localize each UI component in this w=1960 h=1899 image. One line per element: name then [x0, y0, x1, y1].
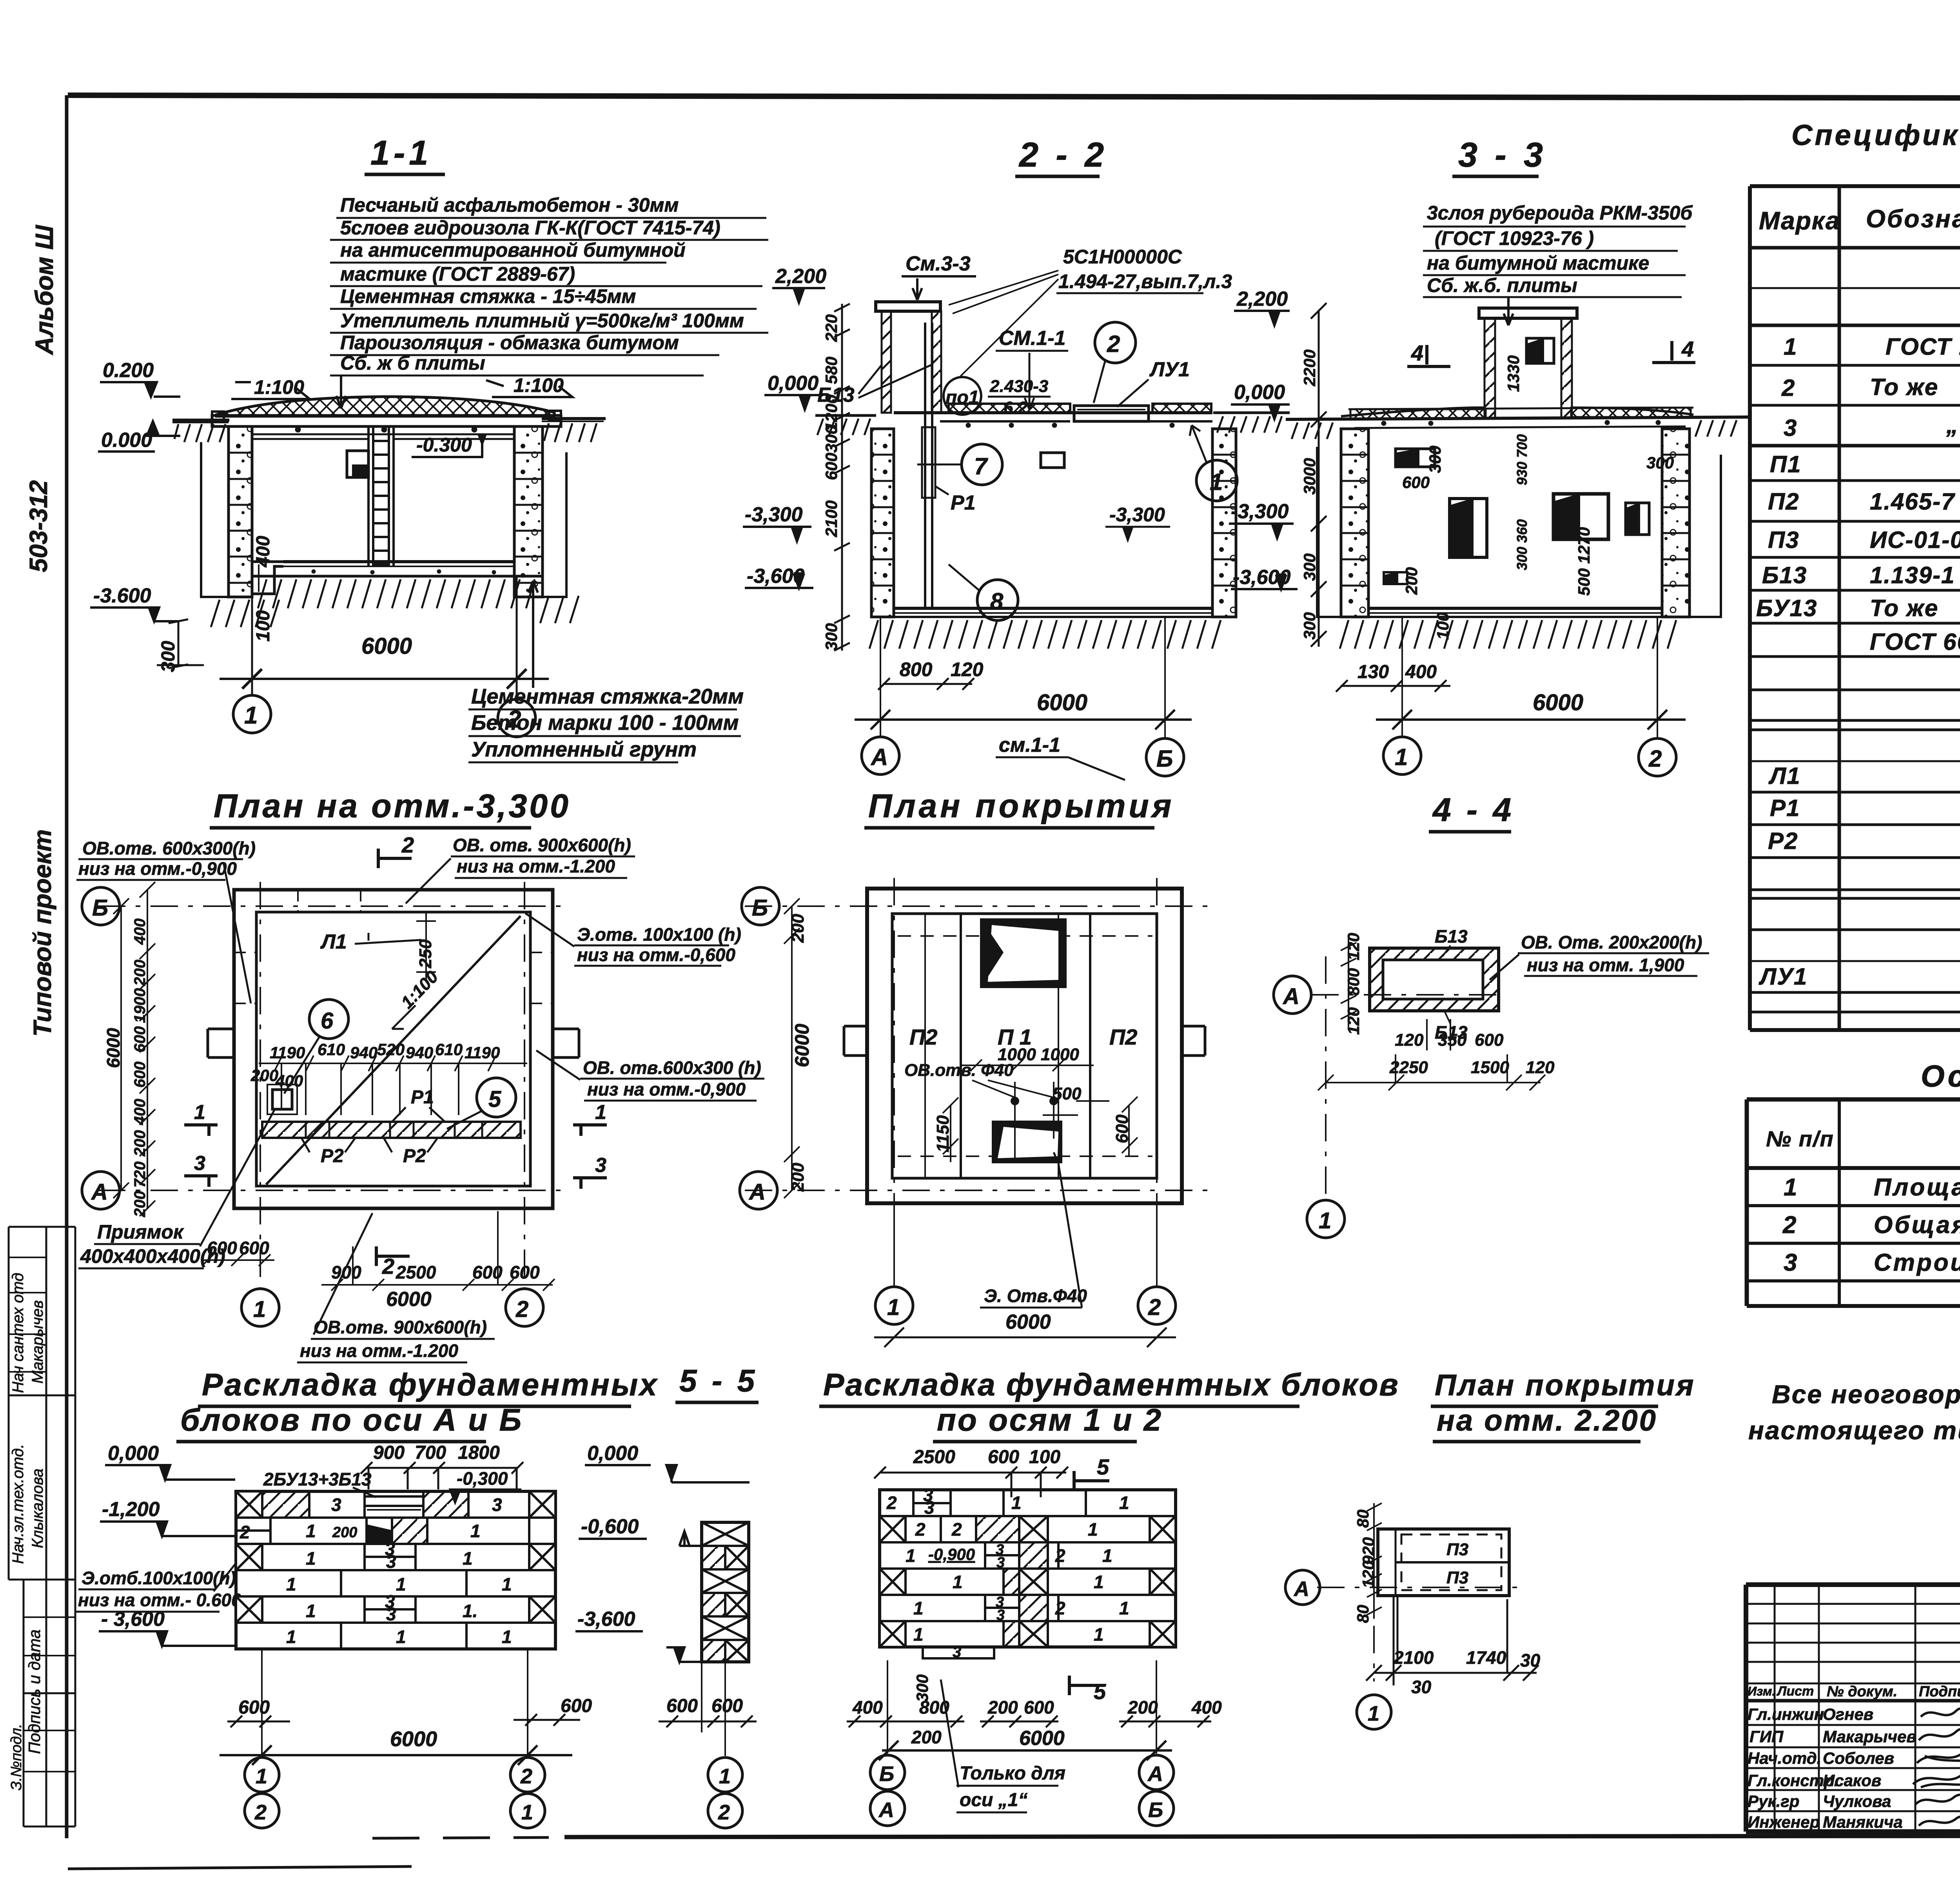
roof plan axis lines [745, 878, 1211, 1290]
svg-text:400: 400 [1405, 662, 1437, 682]
section 4-4 axis lines [1311, 956, 1505, 1199]
svg-text:1500: 1500 [1471, 1058, 1509, 1077]
section 2-2 mark -3,300 interior [1105, 504, 1170, 540]
foundation layout A-B elevation 0,000 [105, 1442, 235, 1480]
svg-text:Обозначение: Обозначение [1866, 205, 1960, 233]
svg-text:-3,300: -3,300 [1231, 500, 1289, 523]
section 2-2 chamber roof slab [894, 404, 1212, 428]
svg-text:100: 100 [253, 610, 274, 642]
svg-text:-1,200: -1,200 [102, 1498, 160, 1521]
svg-text:- 3,600: - 3,600 [101, 1608, 165, 1631]
section 1-1 interior ceiling line [252, 434, 514, 439]
svg-text:ОВ.отв. Ф40: ОВ.отв. Ф40 [904, 1061, 1014, 1080]
section 3-3 roof layers note [1427, 202, 1693, 296]
section 4-4 bottom dims [1389, 1030, 1555, 1077]
svg-text:200: 200 [1127, 1697, 1158, 1718]
svg-text:520: 520 [377, 1040, 405, 1059]
svg-text:П2: П2 [1109, 1025, 1137, 1049]
svg-text:А: А [1293, 1577, 1309, 1601]
svg-text:1: 1 [595, 1101, 606, 1124]
svg-text:6000: 6000 [103, 1028, 123, 1068]
axis circles B/A pair left (layout 1-2) [870, 1755, 905, 1826]
section 2-2 B13 label [817, 365, 932, 406]
svg-text:5: 5 [1097, 1455, 1109, 1479]
svg-text:1800: 1800 [458, 1442, 500, 1463]
svg-text:400: 400 [275, 1072, 303, 1090]
section 1-1 right wall (concrete blocks) [514, 426, 543, 597]
section 1-1 elevation mark 0.000 [98, 421, 180, 452]
section 5-5 elevation 0,000 [585, 1442, 750, 1482]
svg-text:1: 1 [306, 1601, 316, 1621]
roof plan hatch opening top [982, 920, 1065, 987]
section 3-3 interior dims [1402, 434, 1674, 640]
svg-text:1.139-1 вып.1: 1.139-1 вып.1 [1870, 562, 1960, 588]
svg-text:1190: 1190 [270, 1043, 305, 1062]
svg-text:Б: Б [92, 895, 108, 921]
section 1-1 ladder [368, 426, 394, 566]
specification table header row [1759, 196, 1960, 243]
svg-text:1: 1 [1088, 1519, 1098, 1540]
axis circle 1 (plan -3.300) [241, 1289, 279, 1326]
axis circle 2 (section 3-3) [1639, 738, 1676, 776]
svg-text:2: 2 [718, 1801, 730, 1824]
svg-text:Л1: Л1 [1768, 763, 1801, 789]
axis circle 1 (roof plan) [875, 1287, 913, 1324]
svg-text:1: 1 [1319, 1208, 1331, 1233]
svg-text:1: 1 [1368, 1702, 1379, 1725]
svg-text:1: 1 [1210, 469, 1223, 495]
svg-text:0,000: 0,000 [108, 1442, 159, 1465]
svg-text:1: 1 [1102, 1545, 1112, 1566]
svg-text:3слоя рубероида РКМ-350б: 3слоя рубероида РКМ-350б [1427, 202, 1693, 224]
svg-text:130: 130 [1357, 662, 1389, 682]
axis circle 1 (section 3-3) [1383, 737, 1421, 774]
axis circle A (section 4-4) [1274, 976, 1311, 1014]
plan -3.300 right note E otv 100x100 [525, 913, 741, 966]
svg-text:2,200: 2,200 [1236, 288, 1288, 310]
section 2-2 chamber walls [871, 429, 1236, 617]
svg-text:300: 300 [913, 1674, 931, 1702]
svg-text:Цементная стяжка-20мм: Цементная стяжка-20мм [471, 685, 744, 708]
svg-text:низ на отм.-0,900: низ на отм.-0,900 [587, 1079, 746, 1099]
section 1-1 elevation mark 0.200 [100, 359, 180, 397]
section 2-2 ground surface sides [815, 413, 1290, 435]
svg-text:Пароизоляция - обмазка битумо: Пароизоляция - обмазка битумом [340, 332, 679, 354]
plan -3.300 top-right note OV 900x600 [406, 835, 635, 903]
svg-text:30: 30 [1411, 1677, 1432, 1697]
section 4-4 note OV 200x200 [1490, 932, 1709, 980]
section 1-1 dim 100 (rotated) [253, 610, 274, 642]
svg-text:Б: Б [879, 1762, 894, 1786]
svg-text:Общая площадь: Общая площадь [1874, 1212, 1960, 1239]
svg-text:1.465-7 вып.3: 1.465-7 вып.3 [1870, 488, 1960, 515]
svg-text:-0.300: -0.300 [416, 434, 472, 456]
section 2-2 CM.1-1 bottom note [996, 734, 1125, 780]
svg-text:П2: П2 [1768, 488, 1800, 515]
section 4-4 left dim chain [1344, 933, 1363, 1035]
section 2-2 detail mark po1 [944, 377, 1051, 417]
svg-text:по осям 1 и 2: по осям 1 и 2 [937, 1402, 1163, 1437]
foundation layout A-B mark -0,300 [450, 1468, 521, 1503]
svg-text:ГОСТ 13579-78: ГОСТ 13579-78 [1886, 334, 1960, 360]
svg-text:120: 120 [951, 658, 984, 680]
svg-text:0.200: 0.200 [103, 359, 154, 382]
svg-text:120: 120 [1344, 1007, 1363, 1035]
plan -3.300 cut marks 1 and 3 right [573, 1101, 607, 1189]
svg-text:(ГОСТ 10923-76 ): (ГОСТ 10923-76 ) [1435, 227, 1594, 249]
svg-text:-3.600: -3.600 [93, 584, 151, 607]
svg-text:ЛУ1: ЛУ1 [1149, 358, 1190, 381]
specification table heading [1791, 119, 1960, 185]
svg-text:Б13: Б13 [1435, 926, 1468, 947]
svg-text:Только для: Только для [960, 1763, 1065, 1784]
svg-text:низ на отм.-1.200: низ на отм.-1.200 [300, 1340, 458, 1361]
svg-text:1: 1 [1395, 744, 1408, 770]
svg-text:низ на отм.-0,900: низ на отм.-0,900 [78, 858, 237, 879]
section 5-5 block column [702, 1522, 749, 1662]
svg-text:Все неоговоренные узлы смот: Все неоговоренные узлы смотреть в альбом… [1772, 1380, 1960, 1409]
svg-text:600: 600 [238, 1697, 270, 1718]
left margin signature table (rotated 90) [9, 1227, 75, 1826]
svg-text:5: 5 [488, 1086, 501, 1112]
section 1-1 sump pit [252, 562, 283, 594]
svg-text:600: 600 [1024, 1697, 1054, 1718]
svg-text:Инженер: Инженер [1748, 1813, 1820, 1831]
svg-text:План на отм.-3,300: План на отм.-3,300 [214, 787, 571, 824]
svg-text:1: 1 [1784, 1174, 1798, 1201]
svg-text:0.000: 0.000 [101, 429, 152, 452]
svg-text:ОВ. отв. 900х600(h): ОВ. отв. 900х600(h) [453, 835, 631, 855]
svg-text:3: 3 [1784, 415, 1797, 441]
specification table grid [1750, 186, 1960, 1030]
svg-text:6000: 6000 [791, 1024, 813, 1067]
svg-text:940: 940 [406, 1043, 433, 1062]
foundation layout 1-2 cut mark 5 top [1074, 1455, 1109, 1491]
section 2-2 bottom dims 800 120 [878, 658, 984, 690]
svg-text:1: 1 [906, 1545, 916, 1566]
plan -3.300 interior dim row [250, 1040, 500, 1090]
axis circle 2 (section 1-1) [498, 699, 535, 737]
section 3-3 excavation edges [1317, 447, 1721, 617]
svg-text:3: 3 [996, 1607, 1005, 1623]
svg-text:200: 200 [987, 1697, 1018, 1718]
svg-text:610: 610 [435, 1040, 463, 1059]
section 4-4 title [1429, 791, 1514, 832]
title block grid [1746, 1585, 1960, 1832]
svg-text:А: А [91, 1179, 108, 1205]
svg-text:План покрытия: План покрытия [1435, 1369, 1695, 1402]
svg-text:900: 900 [373, 1442, 405, 1463]
title block: signatures squiggles [1913, 1709, 1960, 1826]
section 1-1 left wall (concrete blocks) [229, 426, 252, 597]
svg-text:3: 3 [595, 1154, 606, 1177]
svg-text:1: 1 [913, 1598, 924, 1618]
svg-text:Р2: Р2 [403, 1146, 426, 1166]
svg-text:Р1: Р1 [411, 1087, 434, 1108]
svg-text:3: 3 [1784, 1249, 1798, 1276]
svg-text:120: 120 [1526, 1058, 1555, 1077]
section 1-1 ground hatch under floor [211, 579, 579, 627]
svg-text:З.№подл.: З.№подл. [8, 1724, 25, 1790]
note tolko dlya osi 1 [941, 1680, 1065, 1812]
roof plan bottom dim 6000 [874, 1203, 1176, 1347]
svg-text:200: 200 [131, 959, 149, 986]
svg-text:на антисептированной битумно: на антисептированной битумной [340, 239, 686, 261]
svg-text:3: 3 [386, 1604, 396, 1624]
section 3-3 shaft dim 1330 (rotated) [1504, 355, 1523, 392]
section 1-1 wall bracket box [347, 451, 368, 477]
section 2-2 note 5C1H00000C [949, 246, 1232, 376]
svg-text:610: 610 [318, 1040, 345, 1059]
axis circles 1/2 under 5-5 [708, 1758, 742, 1828]
svg-text:ОВ.отв. 600х300(h): ОВ.отв. 600х300(h) [82, 838, 256, 858]
svg-text:600: 600 [510, 1262, 540, 1282]
section 5-5 bottom dims [659, 1662, 757, 1756]
svg-text:низ на отм. 1,900: низ на отм. 1,900 [1527, 955, 1684, 975]
axis circle A (roof plan) [740, 1172, 777, 1209]
svg-text:Б: Б [752, 895, 768, 921]
section 1-1 ground line and side hatch [172, 419, 606, 442]
svg-text:3: 3 [492, 1495, 502, 1515]
svg-text:Подпись и дата: Подпись и дата [25, 1629, 44, 1754]
roof plan +2.200 title [1431, 1369, 1695, 1442]
svg-text:300 360: 300 360 [1514, 519, 1530, 570]
svg-text:А: А [1282, 984, 1299, 1009]
svg-text:2: 2 [1055, 1545, 1065, 1566]
svg-text:3: 3 [194, 1152, 205, 1175]
plan -3.300 dim 250 rotated at top right [416, 939, 435, 969]
svg-text:3: 3 [953, 1643, 961, 1661]
svg-text:Б13: Б13 [1762, 562, 1807, 588]
svg-text:Исаков: Исаков [1823, 1771, 1881, 1790]
svg-text:1: 1 [887, 1295, 900, 1320]
svg-text:Альбом Ш: Альбом Ш [30, 225, 58, 355]
section 3-3 cut mark 4 left [1407, 341, 1450, 366]
svg-text:6000: 6000 [1533, 690, 1583, 715]
section 2-2 elevation -3,300 [743, 503, 811, 541]
svg-text:-3,300: -3,300 [1109, 504, 1165, 526]
svg-text:500 1270: 500 1270 [1575, 527, 1593, 596]
section 2-2 elevation 2,200 [772, 265, 826, 303]
svg-text:1: 1 [194, 1101, 205, 1124]
svg-text:оси „1“: оси „1“ [960, 1790, 1027, 1810]
svg-text:0,000: 0,000 [587, 1442, 638, 1465]
svg-text:1900: 1900 [131, 988, 149, 1023]
section 3-3 elevation -3,300 [1229, 500, 1294, 538]
svg-text:720: 720 [131, 1161, 149, 1188]
svg-text:0,000: 0,000 [768, 372, 818, 395]
svg-text:600: 600 [131, 1061, 149, 1088]
svg-text:2500: 2500 [913, 1447, 955, 1467]
svg-text:2БУ13+3Б13: 2БУ13+3Б13 [263, 1469, 372, 1489]
section 2-2 elevation 0,000 [764, 372, 823, 410]
svg-text:300: 300 [1646, 453, 1674, 472]
section 1-1 dim 400 (rotated) [253, 536, 274, 568]
svg-text:П3: П3 [1446, 1540, 1468, 1559]
section 1-1 dim 300 (rotated) [158, 641, 179, 672]
svg-text:Типовой проект: Типовой проект [28, 829, 56, 1037]
svg-text:Манякича: Манякича [1823, 1813, 1903, 1831]
svg-text:Приямок: Приямок [97, 1221, 184, 1243]
svg-text:1: 1 [286, 1574, 296, 1594]
svg-text:5слоев гидроизола ГК-К(ГОСТ: 5слоев гидроизола ГК-К(ГОСТ 7415-74) [340, 217, 720, 239]
plan -3.300 axis lines [98, 882, 561, 1290]
svg-text:Э.отб.100х100(h): Э.отб.100х100(h) [82, 1568, 236, 1588]
svg-text:120: 120 [1395, 1030, 1424, 1050]
section 2-2 note CM.3-3 [902, 252, 976, 300]
svg-text:1: 1 [253, 1297, 266, 1322]
svg-text:1: 1 [1784, 334, 1797, 360]
svg-text:400: 400 [253, 536, 274, 568]
svg-text:200: 200 [911, 1727, 942, 1747]
roof plan slab labels [909, 1025, 1137, 1049]
svg-text:Б: Б [1148, 1798, 1163, 1822]
section 2-2 frame P1 in shaft [922, 323, 976, 608]
svg-text:П1: П1 [1770, 451, 1802, 477]
svg-text:Песчаный асфальтобетон - 30: Песчаный асфальтобетон - 30мм [340, 194, 679, 216]
svg-text:Соболев: Соболев [1823, 1749, 1894, 1767]
svg-text:2: 2 [1148, 1295, 1161, 1320]
svg-text:600: 600 [822, 453, 840, 480]
section 5-5 elevation -3,600 [575, 1608, 702, 1662]
section 1-1 roof layers note [340, 194, 744, 374]
svg-text:Площадь застройки: Площадь застройки [1874, 1174, 1960, 1201]
svg-text:940: 940 [350, 1043, 377, 1062]
section 3-3 elevation 0,000 [1231, 381, 1290, 419]
svg-text:2 - 2: 2 - 2 [1018, 135, 1108, 174]
section 1-1 floor layers note [471, 685, 744, 761]
section 2-2 left dim chain [834, 304, 850, 651]
foundation layout A-B bottom dims [220, 1649, 592, 1765]
svg-text:2.430-3: 2.430-3 [989, 377, 1048, 396]
roof plan +2.200 left dims [1354, 1509, 1377, 1623]
svg-text:2: 2 [1107, 331, 1120, 357]
svg-text:600: 600 [1402, 473, 1430, 492]
plan -3.300 top-left note OV 600x300 [76, 838, 256, 1003]
plan -3.300 title [210, 787, 571, 828]
svg-text:1: 1 [1094, 1624, 1104, 1645]
svg-text:на отм. 2.200: на отм. 2.200 [1437, 1404, 1657, 1437]
svg-text:600: 600 [207, 1238, 237, 1258]
svg-text:2,200: 2,200 [775, 265, 826, 288]
svg-text:1: 1 [502, 1627, 512, 1647]
svg-text:2: 2 [1055, 1598, 1065, 1618]
axis circle A (plan -3.300) [82, 1172, 120, 1209]
section 1-1 floor slab [252, 562, 543, 576]
section 3-3 elevation 2,200 [1234, 288, 1290, 325]
svg-text:3000: 3000 [1300, 458, 1319, 495]
svg-text:2: 2 [886, 1493, 897, 1513]
svg-text:800: 800 [900, 658, 933, 680]
svg-text:Нач.эл.тех.отд.: Нач.эл.тех.отд. [9, 1444, 27, 1564]
section 3-3 interior openings [1384, 449, 1649, 584]
plan -3.300 bottom dims [207, 1238, 540, 1311]
svg-text:блоков по оси А и Б: блоков по оси А и Б [180, 1402, 523, 1437]
svg-text:1: 1 [1119, 1598, 1129, 1618]
axis circle 2 (roof plan) [1138, 1287, 1176, 1324]
svg-text:См.3-3: См.3-3 [906, 252, 971, 275]
svg-text:1: 1 [470, 1521, 481, 1541]
roof plan +2.200 axes [1317, 1521, 1517, 1681]
foundation layout A-B elevation -3,600 [99, 1608, 235, 1646]
plan -3.300 balloon 6 [284, 999, 348, 1094]
svg-text:Спецификация изделий на одн: Спецификация изделий на одну камеру [1791, 119, 1960, 151]
main indicators table text [1766, 1121, 1960, 1276]
section 2-2 balloon 1 [1190, 425, 1237, 501]
svg-text:2: 2 [515, 1297, 528, 1322]
svg-text:Раскладка фундаментных блоков: Раскладка фундаментных блоков [823, 1367, 1399, 1402]
svg-text:1-1: 1-1 [370, 133, 432, 172]
svg-text:П3: П3 [1446, 1568, 1468, 1587]
axis circles 1/2 bottom left pair [245, 1758, 545, 1828]
foundation layout A-B title [176, 1367, 659, 1442]
svg-text:600: 600 [1475, 1030, 1504, 1050]
foundation layout A-B elevation -1,200 [100, 1498, 235, 1536]
section 3-3 ground and roof [1286, 408, 1748, 439]
svg-text:2: 2 [254, 1801, 267, 1824]
svg-text:1: 1 [306, 1548, 316, 1569]
section 2-2 elevation -3,600 [745, 565, 813, 588]
section 1-1 title [365, 133, 445, 174]
svg-text:8: 8 [990, 588, 1004, 615]
svg-text:3: 3 [386, 1551, 396, 1572]
svg-text:300: 300 [822, 623, 840, 651]
specification table rows [1756, 258, 1960, 990]
foundation layout 1-2 title [819, 1367, 1399, 1442]
section 2-2 bottom dim 6000 [855, 617, 1192, 739]
svg-text:А: А [878, 1798, 894, 1822]
svg-text:см.1-1: см.1-1 [999, 734, 1060, 756]
foundation layout 1-2 block numbers [886, 1485, 1129, 1661]
plan -3.300 walls [208, 890, 579, 1208]
section 1-1 elevation mark -3.600 [90, 584, 178, 621]
svg-text:1: 1 [1011, 1493, 1022, 1513]
section 5-5 elevation -0,600 [579, 1515, 702, 1546]
svg-text:200: 200 [332, 1524, 357, 1541]
svg-text:Л1: Л1 [320, 930, 347, 953]
section 1-1 excavation edges [201, 442, 566, 597]
svg-text:400: 400 [131, 918, 149, 945]
svg-text:Р1: Р1 [951, 492, 976, 514]
axis circle B (section 2-2) [1146, 738, 1184, 776]
axis circle 2 (plan -3.300) [506, 1289, 543, 1326]
section 3-3 floor [1340, 608, 1690, 649]
svg-text:6000: 6000 [1005, 1311, 1051, 1333]
svg-text:700: 700 [415, 1442, 446, 1463]
svg-text:600: 600 [711, 1696, 743, 1716]
svg-text:1: 1 [306, 1521, 316, 1541]
section 3-3 bottom dims 130 400 [1336, 662, 1450, 692]
svg-text:ИС-01-04 вып.2: ИС-01-04 вып.2 [1870, 527, 1960, 553]
foundation layout A-B note 2BU13+3B13 [263, 1469, 376, 1497]
title block: signature rows [1748, 1705, 1916, 1831]
svg-text:А: А [870, 744, 888, 770]
left margin stamp: Типовой проект (rotated) [28, 829, 56, 1037]
svg-text:2: 2 [240, 1522, 250, 1542]
section 2-2 luk LU1 label [1117, 358, 1190, 407]
section 5-5 title [675, 1363, 759, 1402]
svg-text:Бетон марки 100 - 100мм: Бетон марки 100 - 100мм [471, 711, 739, 735]
svg-text:6: 6 [321, 1008, 334, 1034]
svg-text:№ п/п: № п/п [1766, 1126, 1834, 1151]
svg-text:5 - 5: 5 - 5 [679, 1363, 758, 1398]
svg-text:100: 100 [1029, 1447, 1060, 1467]
section 1-1 roof slab [212, 411, 561, 432]
svg-text:1.: 1. [463, 1601, 477, 1621]
svg-text:№ докум.: № докум. [1827, 1683, 1897, 1700]
svg-text:220: 220 [822, 314, 840, 342]
svg-text:80: 80 [1354, 1509, 1372, 1528]
